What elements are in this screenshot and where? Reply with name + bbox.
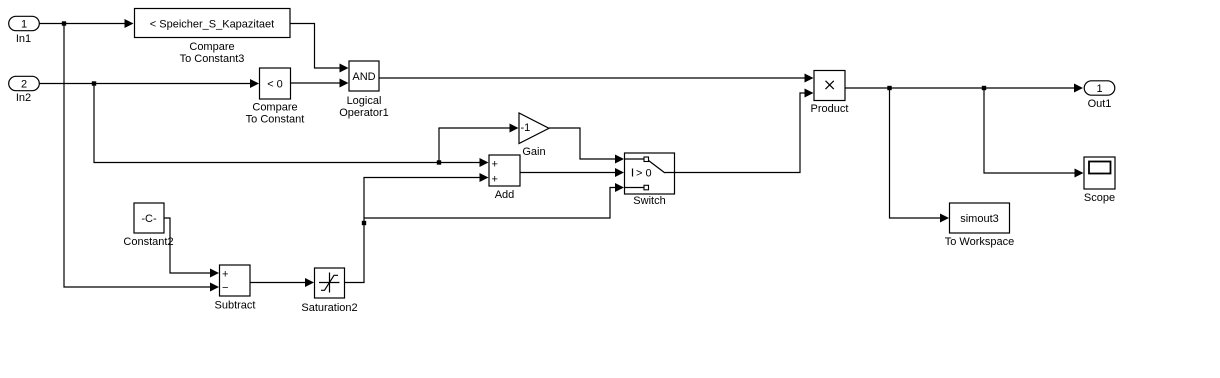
block Gain xyxy=(519,113,549,158)
svg-text:> 0: > 0 xyxy=(636,168,652,180)
svg-text:To Constant: To Constant xyxy=(246,114,305,126)
svg-text:+: + xyxy=(492,174,498,186)
block Compare To Constant xyxy=(246,68,305,126)
wire branch up to Gain input xyxy=(439,124,519,163)
svg-text:< 0: < 0 xyxy=(267,79,283,91)
svg-text:Compare: Compare xyxy=(252,102,297,114)
svg-text:−: − xyxy=(222,282,228,294)
svg-text:Switch: Switch xyxy=(633,195,665,207)
outport Out1 xyxy=(1084,81,1115,110)
wire Gain to Switch in1 xyxy=(549,128,624,164)
svg-text:simout3: simout3 xyxy=(960,213,999,225)
svg-text:+: + xyxy=(492,159,498,171)
wire Product to Out1 xyxy=(845,84,1083,93)
svg-text:Compare: Compare xyxy=(189,41,234,53)
svg-text:-1: -1 xyxy=(521,122,531,134)
junction dot on Add in1 wire xyxy=(437,160,441,164)
wire Switch to Product in2 xyxy=(675,89,814,173)
block Product xyxy=(811,71,849,116)
wire branch to To Workspace xyxy=(890,88,950,223)
svg-text:2: 2 xyxy=(21,79,27,91)
wire Logical Operator1 to Product in1 xyxy=(379,74,814,83)
svg-text:1: 1 xyxy=(1096,83,1102,95)
block To Workspace simout3 xyxy=(945,203,1015,248)
svg-text:Out1: Out1 xyxy=(1088,98,1112,110)
wire Compare To Constant3 to Logical Operator1 in1 xyxy=(290,24,349,73)
wire Constant2 to Subtract in1 xyxy=(164,218,219,278)
svg-text:Gain: Gain xyxy=(522,146,545,158)
svg-text:Subtract: Subtract xyxy=(215,300,256,312)
junction dot on In2 wire xyxy=(92,81,96,85)
wire In2 branch down to Add in1 xyxy=(94,84,489,168)
svg-text:Saturation2: Saturation2 xyxy=(301,302,357,314)
inport In2 xyxy=(9,76,40,104)
wire In1 branch down to Subtract in2 xyxy=(64,24,219,292)
block Subtract xyxy=(215,265,256,312)
svg-text:To Workspace: To Workspace xyxy=(945,236,1015,248)
svg-text:AND: AND xyxy=(352,71,375,83)
svg-text:In2: In2 xyxy=(16,92,31,104)
svg-text:Logical: Logical xyxy=(347,95,382,107)
block Constant2 xyxy=(123,203,173,248)
wire branch to Switch in3 xyxy=(364,183,624,218)
block Add xyxy=(489,155,520,201)
junction dot on In1 wire xyxy=(62,21,66,25)
junction dot on Saturation2 wire xyxy=(362,221,366,225)
wire Saturation2 to Add in2 xyxy=(345,173,489,283)
wire branch to Scope xyxy=(984,88,1084,178)
junction dot Product out 1 xyxy=(887,86,891,90)
svg-text:Add: Add xyxy=(495,189,515,201)
svg-text:To Constant3: To Constant3 xyxy=(180,53,245,65)
svg-text:Product: Product xyxy=(811,103,849,115)
block Saturation2 xyxy=(301,268,357,314)
block Scope xyxy=(1084,157,1115,204)
svg-text:Operator1: Operator1 xyxy=(339,107,389,119)
wire In2 to Compare To Constant xyxy=(40,79,260,88)
wire Add to Switch in2 xyxy=(520,168,624,177)
block Compare To Constant3 xyxy=(135,9,291,66)
inport In1 xyxy=(9,16,40,45)
wire In1 to Compare To Constant3 xyxy=(40,19,134,28)
junction dot Product out 2 xyxy=(982,86,986,90)
svg-text:< Speicher_S_Kapazitaet: < Speicher_S_Kapazitaet xyxy=(150,19,274,31)
svg-text:+: + xyxy=(222,269,228,281)
wire Subtract to Saturation2 xyxy=(250,278,314,287)
svg-text:Scope: Scope xyxy=(1084,192,1115,204)
block Logical Operator1 AND xyxy=(339,61,389,119)
wire Compare To Constant to Logical Operator1 in2 xyxy=(291,79,349,88)
svg-text:-C-: -C- xyxy=(141,213,157,225)
block Switch xyxy=(625,153,675,207)
svg-text:Constant2: Constant2 xyxy=(123,236,173,248)
svg-text:1: 1 xyxy=(21,19,27,31)
svg-text:In1: In1 xyxy=(16,33,31,45)
